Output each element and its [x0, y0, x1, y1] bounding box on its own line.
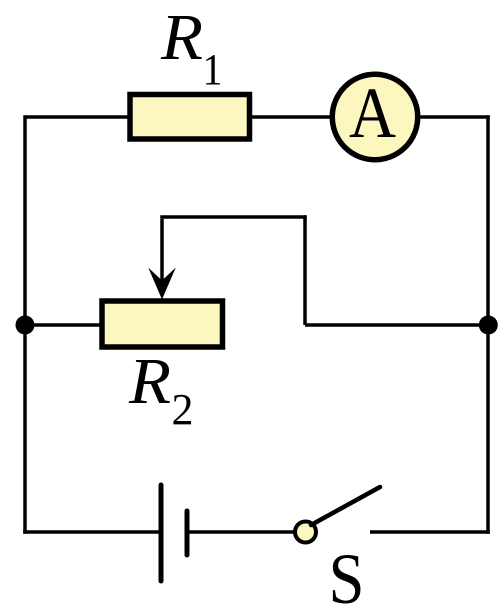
wire: ammeter to top-right corner: [418, 115, 490, 119]
wire: bottom-left horizontal (corner to battery): [23, 530, 161, 534]
node: left junction: [16, 316, 35, 335]
svg-text:R: R: [128, 345, 171, 418]
svg-text:A: A: [349, 73, 396, 153]
switch S: lever: [311, 487, 380, 525]
ammeter U1: [332, 74, 418, 160]
svg-text:2: 2: [172, 385, 194, 434]
node: right junction: [479, 316, 498, 335]
svg-text:R: R: [160, 1, 203, 74]
resistor R1: [130, 95, 250, 140]
switch S: pivot circle: [295, 522, 316, 543]
wire: wiper vertical up from arrow: [160, 219, 164, 283]
battery: short plate (negative): [185, 511, 190, 555]
battery: long plate (positive): [159, 485, 164, 581]
arrowhead of rheostat wiper: [148, 268, 176, 300]
wire: left node to R2: [25, 323, 102, 327]
wire: wiper branch right vertical: [303, 215, 307, 325]
wire: R1 to ammeter: [250, 115, 332, 119]
rheostat R2: [102, 301, 223, 347]
svg-text:1: 1: [203, 45, 223, 94]
wire: right vertical: [486, 115, 490, 534]
wire: wiper branch to right node: [305, 323, 488, 327]
wire: wiper top horizontal: [160, 215, 307, 219]
wire: top-left horizontal (corner to R1): [25, 115, 130, 119]
svg-text:S: S: [329, 539, 365, 615]
wire: left vertical: [23, 115, 27, 534]
wire: switch to bottom-right corner: [370, 530, 490, 534]
wire: battery to switch: [187, 530, 296, 534]
